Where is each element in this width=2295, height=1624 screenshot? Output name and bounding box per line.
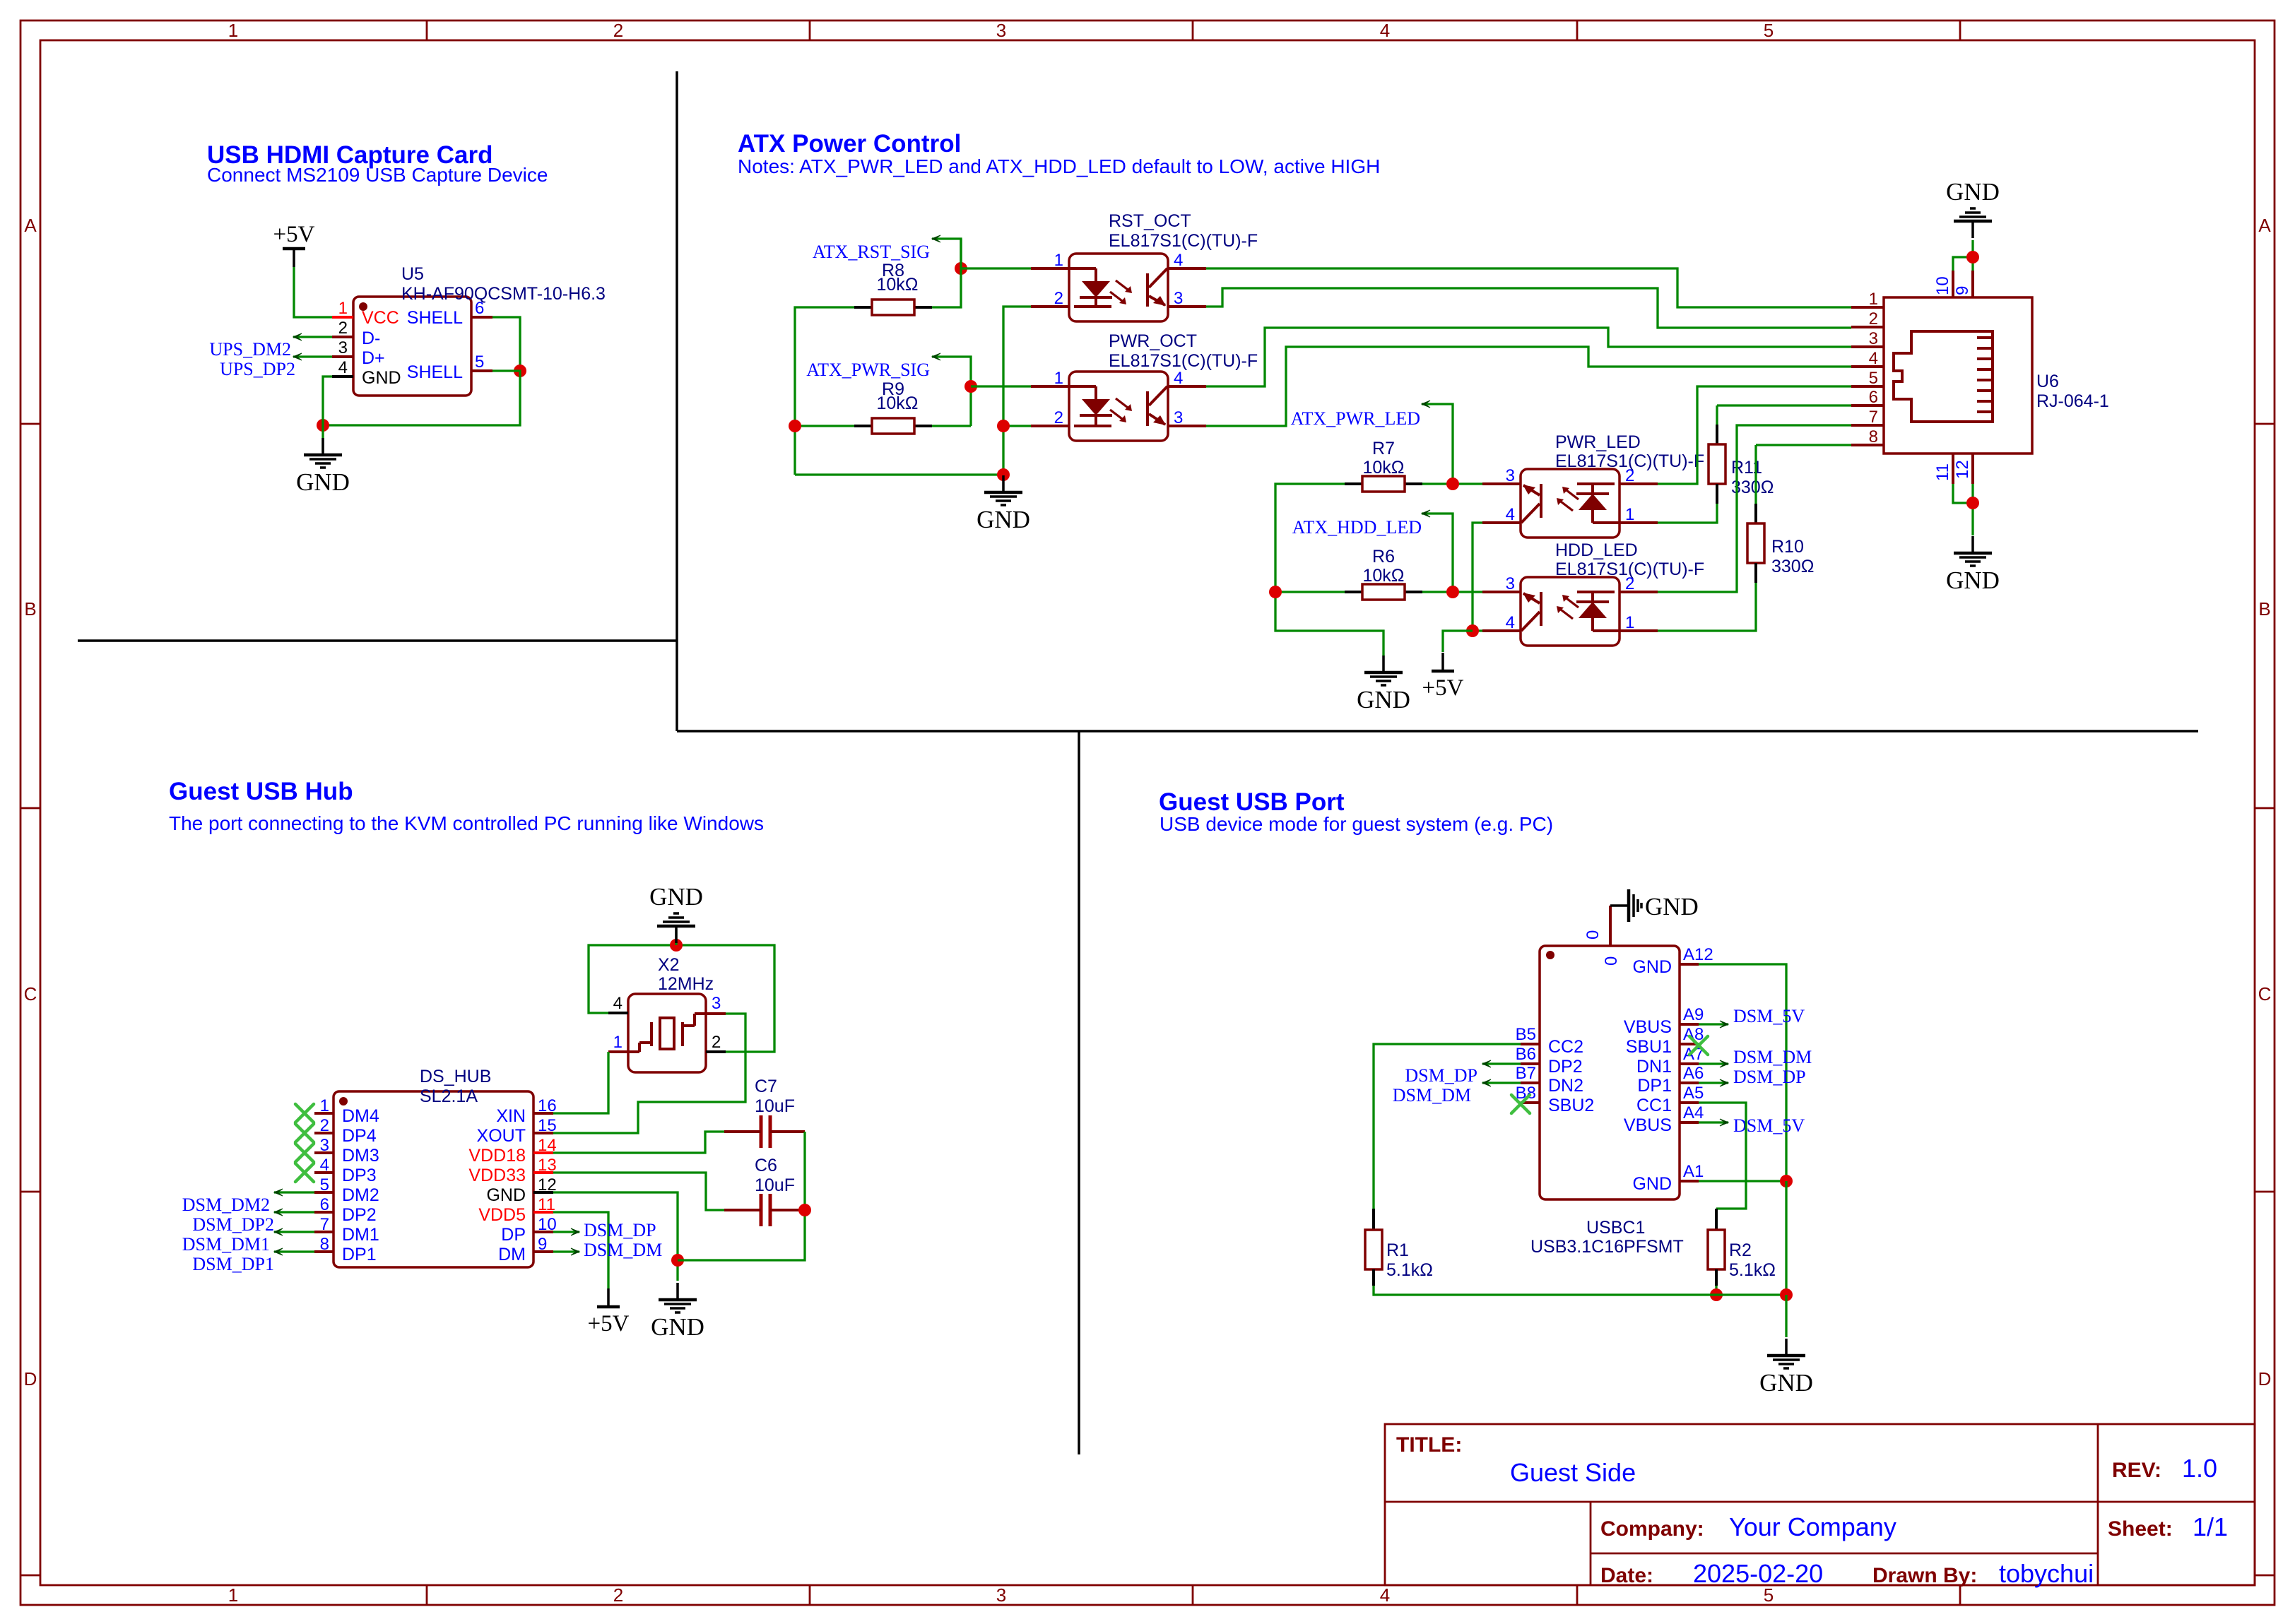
svg-text:ATX_PWR_SIG: ATX_PWR_SIG xyxy=(806,360,930,380)
PWR_OCT pin 3 xyxy=(1168,425,1206,427)
R1 lead top xyxy=(1372,1209,1375,1230)
svg-text:DP: DP xyxy=(501,1225,526,1245)
svg-text:The port connecting to the KVM: The port connecting to the KVM controlle… xyxy=(169,812,764,834)
PWR_OCT pin 2 xyxy=(1031,425,1069,427)
svg-text:DM: DM xyxy=(498,1245,526,1264)
U6 pin 10 xyxy=(1952,271,1954,297)
svg-text:CC1: CC1 xyxy=(1636,1096,1672,1115)
svg-text:GND: GND xyxy=(486,1185,526,1205)
svg-text:DN2: DN2 xyxy=(1548,1076,1583,1096)
X2 pin 1 xyxy=(608,1050,628,1053)
svg-text:EL817S1(C)(TU)-F: EL817S1(C)(TU)-F xyxy=(1109,231,1258,251)
wire U6 pin11 hook xyxy=(1953,484,1973,503)
svg-text:10kΩ: 10kΩ xyxy=(1363,458,1405,478)
svg-text:GND: GND xyxy=(362,368,401,388)
PWR_OCT pin 1 xyxy=(1031,385,1069,388)
svg-text:5: 5 xyxy=(475,352,484,372)
svg-text:+5V: +5V xyxy=(273,222,315,247)
junction R9 left rail xyxy=(789,420,801,432)
svg-text:12: 12 xyxy=(1953,460,1972,479)
svg-text:5: 5 xyxy=(1869,369,1878,388)
svg-text:DSM_DM1: DSM_DM1 xyxy=(182,1234,270,1255)
crystal X2 body xyxy=(628,994,706,1072)
wire XOUT to X2 pin3 xyxy=(553,1014,745,1133)
svg-text:REV:: REV: xyxy=(2112,1459,2161,1482)
RST_OCT pin 4 xyxy=(1168,267,1206,270)
section divider horizontal left xyxy=(78,639,677,642)
wire R8 left rail xyxy=(795,307,854,475)
component USBC1 body xyxy=(1540,946,1680,1199)
wire U5 pin2 to UPS_DM2 xyxy=(293,336,332,338)
svg-text:1: 1 xyxy=(1054,251,1063,270)
svg-text:GND: GND xyxy=(296,468,350,496)
wire XIN to X2 pin1 xyxy=(553,1052,608,1113)
svg-text:4: 4 xyxy=(1506,613,1515,632)
U6 pin 12 xyxy=(1971,454,1974,484)
wire gnd down xyxy=(1785,1181,1787,1295)
svg-text:9: 9 xyxy=(538,1235,547,1254)
junction gnd rail usb xyxy=(1780,1288,1793,1301)
section divider vertical 1 xyxy=(675,71,678,731)
junction PWR_OCT pin2 rail xyxy=(997,420,1010,432)
svg-text:VDD5: VDD5 xyxy=(478,1205,526,1225)
svg-text:5.1kΩ: 5.1kΩ xyxy=(1386,1260,1433,1280)
svg-text:VDD33: VDD33 xyxy=(468,1166,526,1185)
svg-text:DP2: DP2 xyxy=(342,1205,377,1225)
svg-text:DSM_DP: DSM_DP xyxy=(1733,1067,1806,1087)
svg-text:D: D xyxy=(24,1368,37,1389)
ground GND (USBC top, sideways) xyxy=(1610,904,1627,907)
wire PWR_LED pin4 to HDD_LED pin4 xyxy=(1473,523,1482,631)
svg-text:UPS_DP2: UPS_DP2 xyxy=(220,359,295,379)
svg-text:DM2: DM2 xyxy=(342,1185,379,1205)
wire U6 pin10 hook xyxy=(1953,257,1973,271)
wire RST_OCT pin2 to gnd rail xyxy=(1003,307,1031,475)
svg-text:Drawn By:: Drawn By: xyxy=(1872,1564,1977,1587)
optocoupler PWR_OCT xyxy=(1069,372,1168,441)
svg-text:A4: A4 xyxy=(1683,1103,1704,1122)
wire R10 to HDD_LED pin1 xyxy=(1658,583,1756,631)
PWR_LED pin 4 xyxy=(1482,521,1521,524)
svg-text:ATX_PWR_LED: ATX_PWR_LED xyxy=(1291,408,1420,429)
svg-text:GND: GND xyxy=(1946,567,2000,594)
svg-text:3: 3 xyxy=(1506,574,1515,593)
svg-text:A6: A6 xyxy=(1683,1064,1704,1083)
svg-text:RST_OCT: RST_OCT xyxy=(1109,211,1191,231)
svg-text:4: 4 xyxy=(338,358,348,377)
svg-text:1: 1 xyxy=(613,1033,623,1052)
ground GND (ATX rail) xyxy=(1002,475,1005,491)
svg-text:DSM_DP2: DSM_DP2 xyxy=(192,1214,274,1235)
wire U5 pin6 down xyxy=(492,317,520,371)
net flag wire ATX_PWR_SIG xyxy=(932,357,971,426)
svg-text:7: 7 xyxy=(1869,408,1878,427)
wire RST_OCT pin1 xyxy=(961,267,1031,269)
capacitor C6 xyxy=(760,1194,763,1226)
R10 lead bottom xyxy=(1754,563,1757,583)
component U5 body xyxy=(353,297,471,396)
svg-text:C: C xyxy=(2258,983,2272,1004)
svg-text:1: 1 xyxy=(1054,369,1063,388)
wire PWR_LED pin2 to U6 pin5 xyxy=(1658,386,1851,484)
svg-text:GND: GND xyxy=(1645,893,1699,920)
svg-text:ATX_RST_SIG: ATX_RST_SIG xyxy=(813,242,930,262)
svg-text:1.0: 1.0 xyxy=(2182,1454,2217,1483)
X2 pin 3 xyxy=(706,1012,726,1015)
resistor R6 xyxy=(1345,591,1362,593)
svg-text:2: 2 xyxy=(1869,309,1878,328)
svg-text:A9: A9 xyxy=(1683,1005,1704,1024)
svg-text:DSM_DP: DSM_DP xyxy=(584,1220,656,1240)
section divider vertical 2 xyxy=(1078,731,1080,1454)
svg-text:2: 2 xyxy=(712,1033,721,1052)
wire R9 left xyxy=(795,425,854,427)
svg-text:+5V: +5V xyxy=(588,1311,630,1336)
wire gnd rail bottom xyxy=(795,473,1003,475)
svg-text:3: 3 xyxy=(1174,408,1183,427)
no-connect X A8 xyxy=(1689,1036,1708,1055)
svg-text:3: 3 xyxy=(320,1136,329,1155)
ground GND (USB port) xyxy=(1785,1339,1788,1354)
wire VDD33 to C6 xyxy=(553,1173,724,1210)
junction ATX_PWR_SIG xyxy=(964,380,977,393)
resistor R7 xyxy=(1345,482,1362,485)
wire X2 gnd stem xyxy=(675,929,677,945)
component DS_HUB body xyxy=(334,1091,533,1267)
junction U5 gnd xyxy=(317,419,329,432)
resistor R10 xyxy=(1747,523,1764,563)
ground GND (U5) xyxy=(321,438,324,454)
svg-text:3: 3 xyxy=(996,1584,1006,1606)
wire R6 right xyxy=(1422,591,1482,593)
svg-text:USB device mode for guest syst: USB device mode for guest system (e.g. P… xyxy=(1160,813,1553,835)
optocoupler HDD_LED xyxy=(1521,577,1620,646)
svg-text:B6: B6 xyxy=(1516,1045,1536,1064)
U5 pin 5 SHELL xyxy=(471,369,492,372)
svg-text:10: 10 xyxy=(1933,276,1952,295)
PWR_OCT pin 4 xyxy=(1168,385,1206,388)
svg-text:TITLE:: TITLE: xyxy=(1396,1433,1462,1457)
wire R11 to PWR_LED pin1 xyxy=(1658,504,1717,523)
wire U5 pin4 to gnd xyxy=(323,377,332,452)
svg-text:A: A xyxy=(24,215,37,236)
svg-text:1: 1 xyxy=(1625,505,1634,524)
svg-text:EL817S1(C)(TU)-F: EL817S1(C)(TU)-F xyxy=(1109,351,1258,371)
svg-text:A5: A5 xyxy=(1683,1084,1704,1103)
USBC1 pins A-side xyxy=(1680,963,1699,966)
border ticks xyxy=(426,20,428,40)
svg-text:DM4: DM4 xyxy=(342,1106,379,1126)
svg-text:R2: R2 xyxy=(1729,1240,1752,1260)
svg-text:Connect MS2109 USB Capture Dev: Connect MS2109 USB Capture Device xyxy=(207,164,548,186)
no-connect X pins 1-4 xyxy=(295,1104,314,1122)
R1 lead bottom xyxy=(1372,1269,1375,1286)
svg-text:Guest USB Port: Guest USB Port xyxy=(1159,788,1345,816)
svg-text:R10: R10 xyxy=(1771,537,1804,557)
svg-text:A: A xyxy=(2258,215,2271,236)
svg-text:4: 4 xyxy=(1174,369,1183,388)
svg-text:330Ω: 330Ω xyxy=(1771,557,1814,576)
svg-text:HDD_LED: HDD_LED xyxy=(1555,540,1638,560)
svg-text:7: 7 xyxy=(320,1215,329,1234)
svg-text:DSM_5V: DSM_5V xyxy=(1733,1115,1805,1136)
svg-text:5.1kΩ: 5.1kΩ xyxy=(1729,1260,1776,1280)
wire DM2 pin5 xyxy=(274,1191,314,1193)
svg-text:Guest USB Hub: Guest USB Hub xyxy=(169,778,353,805)
svg-text:5: 5 xyxy=(320,1175,329,1195)
svg-text:DP1: DP1 xyxy=(342,1245,377,1264)
svg-text:Guest Side: Guest Side xyxy=(1510,1458,1636,1487)
wire DP pin10 xyxy=(553,1231,579,1233)
svg-text:8: 8 xyxy=(1869,427,1878,446)
svg-text:0: 0 xyxy=(1583,930,1603,940)
svg-text:4: 4 xyxy=(613,994,623,1013)
svg-text:tobychui: tobychui xyxy=(1999,1559,2094,1588)
junction gnd rail xyxy=(997,468,1010,481)
junction hub gnd xyxy=(671,1254,684,1267)
svg-text:Notes: ATX_PWR_LED and ATX_HDD: Notes: ATX_PWR_LED and ATX_HDD_LED defau… xyxy=(738,155,1380,177)
svg-text:DSM_DM: DSM_DM xyxy=(584,1240,662,1260)
wire A4 DSM_5V xyxy=(1699,1121,1728,1123)
junction U6 bottom gnd xyxy=(1966,497,1979,509)
svg-text:CC2: CC2 xyxy=(1548,1037,1583,1057)
svg-text:3: 3 xyxy=(338,338,348,357)
svg-text:DN1: DN1 xyxy=(1636,1057,1672,1077)
svg-text:DSM_DP1: DSM_DP1 xyxy=(192,1254,274,1274)
wire PWR4 to U6 pin3 xyxy=(1206,328,1851,386)
svg-text:2: 2 xyxy=(1054,289,1063,308)
X2 crystal glyph xyxy=(628,1050,639,1053)
wire PWR3 to U6 pin4 xyxy=(1206,347,1851,426)
U5 pin 6 SHELL xyxy=(471,316,492,319)
HDD_LED pin 2 xyxy=(1620,591,1658,593)
svg-text:3: 3 xyxy=(712,994,721,1013)
U6 pins 1-8 xyxy=(1851,306,1884,309)
svg-text:A1: A1 xyxy=(1683,1162,1704,1181)
svg-text:SBU2: SBU2 xyxy=(1548,1096,1594,1115)
RST_OCT pin 2 xyxy=(1031,305,1069,308)
wire A5 CC1 to R2 xyxy=(1699,1103,1746,1209)
connector U6 body xyxy=(1884,297,2032,454)
wire U6 pin6 to R11 xyxy=(1717,404,1851,406)
svg-text:ATX Power Control: ATX Power Control xyxy=(738,130,961,158)
svg-text:DP2: DP2 xyxy=(1548,1057,1583,1077)
U6 jack glyph xyxy=(1894,331,1993,422)
svg-text:XOUT: XOUT xyxy=(477,1126,526,1146)
wire U5 pin5 shell to gnd rail xyxy=(323,371,520,425)
svg-text:1: 1 xyxy=(228,20,238,41)
svg-text:2: 2 xyxy=(338,319,348,338)
U5 pin 4 GND xyxy=(332,375,353,378)
power +5V (LED rail) xyxy=(1441,653,1444,671)
svg-text:C7: C7 xyxy=(755,1077,777,1096)
X2 pin 2 xyxy=(706,1050,726,1053)
U6 pin 9 xyxy=(1971,271,1974,297)
U5 pin 3 D+ xyxy=(332,355,353,358)
wire R6 left xyxy=(1275,591,1345,593)
svg-text:SHELL: SHELL xyxy=(407,308,463,328)
svg-text:B: B xyxy=(24,598,36,620)
R2 lead bottom xyxy=(1715,1269,1718,1286)
svg-text:DP3: DP3 xyxy=(342,1166,377,1185)
ground GND (LED rail) xyxy=(1382,656,1385,671)
svg-text:GND: GND xyxy=(1946,178,2000,206)
svg-text:1: 1 xyxy=(1625,613,1634,632)
svg-text:B7: B7 xyxy=(1516,1064,1536,1083)
wire DM1 pin7 xyxy=(274,1231,314,1233)
wire R7 right xyxy=(1422,482,1482,485)
svg-text:2: 2 xyxy=(613,20,623,41)
wire PWR_OCT pin2 xyxy=(1003,425,1031,427)
svg-text:10uF: 10uF xyxy=(755,1096,795,1116)
R11 lead top xyxy=(1716,425,1718,444)
optocoupler PWR_LED xyxy=(1521,469,1620,538)
svg-text:2: 2 xyxy=(1625,574,1634,593)
svg-text:SL2.1A: SL2.1A xyxy=(420,1086,478,1106)
svg-text:DM1: DM1 xyxy=(342,1225,379,1245)
PWR_LED pin 2 xyxy=(1620,482,1658,485)
svg-text:VBUS: VBUS xyxy=(1624,1017,1672,1037)
wire R9 right xyxy=(932,425,971,427)
wire A6 DSM_DP xyxy=(1699,1081,1728,1084)
junction emitters xyxy=(1466,624,1479,637)
resistor R11 xyxy=(1709,444,1725,484)
junction U5 pin5-pin6 xyxy=(514,364,526,377)
svg-text:2025-02-20: 2025-02-20 xyxy=(1693,1559,1823,1588)
wire DM pin9 xyxy=(553,1250,579,1252)
svg-text:DM3: DM3 xyxy=(342,1146,379,1166)
svg-text:DP4: DP4 xyxy=(342,1126,377,1146)
svg-text:DSM_DM: DSM_DM xyxy=(1393,1085,1471,1106)
R2 lead top xyxy=(1715,1209,1718,1230)
HDD_LED pin 1 xyxy=(1620,629,1658,632)
R11 lead bottom xyxy=(1716,484,1718,504)
svg-text:10kΩ: 10kΩ xyxy=(877,275,919,295)
wire B7 DSM_DM xyxy=(1482,1081,1521,1084)
power +5V (hub) xyxy=(607,1288,610,1307)
svg-text:0: 0 xyxy=(1602,956,1621,966)
svg-text:D+: D+ xyxy=(362,348,385,368)
svg-text:Sheet:: Sheet: xyxy=(2108,1517,2173,1541)
svg-text:UPS_DM2: UPS_DM2 xyxy=(209,339,291,360)
svg-text:R6: R6 xyxy=(1372,547,1395,567)
svg-text:12MHz: 12MHz xyxy=(658,974,714,994)
svg-text:D-: D- xyxy=(362,328,380,348)
svg-text:2: 2 xyxy=(1625,466,1634,485)
svg-text:2: 2 xyxy=(613,1584,623,1606)
ground GND (X2) xyxy=(675,927,678,943)
DS_HUB pin1 dot xyxy=(339,1097,348,1106)
svg-text:B5: B5 xyxy=(1516,1025,1536,1044)
svg-text:11: 11 xyxy=(1933,463,1952,481)
svg-text:ATX_HDD_LED: ATX_HDD_LED xyxy=(1292,517,1422,538)
PWR_LED pin 3 xyxy=(1482,482,1521,485)
wire GND pin12 xyxy=(553,1192,678,1281)
wire X2 gnd loop xyxy=(589,945,774,1052)
svg-text:GND: GND xyxy=(977,506,1030,533)
svg-text:5: 5 xyxy=(1764,20,1774,41)
wire PWR_OCT pin1 xyxy=(971,385,1031,387)
svg-text:B: B xyxy=(2258,598,2270,620)
svg-text:PWR_LED: PWR_LED xyxy=(1555,432,1641,452)
wire DP2 pin6 xyxy=(274,1211,314,1213)
wire A7 DSM_DM xyxy=(1699,1062,1728,1065)
DS_HUB pins 1-8 left xyxy=(314,1112,334,1115)
svg-text:10uF: 10uF xyxy=(755,1175,795,1195)
wire DP1 pin8 xyxy=(274,1250,314,1252)
RST_OCT pin 1 xyxy=(1031,267,1069,270)
wire R2 to gnd rail xyxy=(1715,1286,1717,1295)
svg-text:8: 8 xyxy=(320,1235,329,1254)
resistor R8 xyxy=(854,306,872,309)
no-connect X B8 xyxy=(1511,1095,1530,1113)
svg-text:1: 1 xyxy=(338,299,348,318)
svg-text:4: 4 xyxy=(1869,349,1878,368)
wire A12 gnd xyxy=(1699,964,1786,1181)
svg-text:PWR_OCT: PWR_OCT xyxy=(1109,331,1197,351)
svg-text:VCC: VCC xyxy=(362,308,399,328)
svg-text:DSM_DM2: DSM_DM2 xyxy=(182,1195,270,1215)
svg-text:DP1: DP1 xyxy=(1637,1076,1672,1096)
title block frame xyxy=(1385,1424,2255,1585)
wire caps right rail xyxy=(678,1132,805,1260)
wire HDD_LED pin2 to U6 pin7 xyxy=(1658,425,1851,592)
wire R7 left xyxy=(1275,484,1384,656)
svg-text:6: 6 xyxy=(320,1195,329,1214)
svg-text:4: 4 xyxy=(1380,20,1390,41)
resistor R1 xyxy=(1365,1230,1382,1269)
junction A1 xyxy=(1780,1175,1793,1187)
junction U6 top gnd xyxy=(1966,251,1979,263)
svg-text:1: 1 xyxy=(228,1584,238,1606)
svg-text:SBU1: SBU1 xyxy=(1626,1037,1672,1057)
HDD_LED pin 3 xyxy=(1482,591,1521,593)
wire gnd stem usb xyxy=(1785,1295,1787,1337)
svg-text:KH-AF90QCSMT-10-H6.3: KH-AF90QCSMT-10-H6.3 xyxy=(401,284,606,304)
svg-text:GND: GND xyxy=(1632,1174,1672,1194)
USBC1 pin1 dot xyxy=(1546,951,1554,959)
svg-text:+5V: +5V xyxy=(1422,675,1464,701)
optocoupler RST_OCT xyxy=(1069,254,1168,321)
wire A9 DSM_5V xyxy=(1699,1023,1728,1025)
svg-text:10kΩ: 10kΩ xyxy=(877,393,919,413)
capacitor C7 xyxy=(760,1115,763,1148)
U5 pin1 dot xyxy=(359,302,367,311)
R10 lead top xyxy=(1754,504,1757,523)
svg-text:1: 1 xyxy=(1869,290,1878,309)
ground GND (hub) xyxy=(676,1283,679,1298)
svg-text:Your Company: Your Company xyxy=(1729,1512,1896,1541)
junction ATX_RST_SIG xyxy=(955,262,967,275)
net flag wire ATX_RST_SIG xyxy=(932,239,961,268)
svg-text:VDD18: VDD18 xyxy=(468,1146,526,1166)
svg-text:GND: GND xyxy=(1357,686,1410,713)
junction R7 right xyxy=(1446,478,1459,490)
wire RST4 to U6 pin1 xyxy=(1206,268,1851,307)
junction X2 gnd xyxy=(670,939,683,952)
svg-text:3: 3 xyxy=(996,20,1006,41)
svg-text:3: 3 xyxy=(1869,329,1878,348)
svg-text:X2: X2 xyxy=(658,955,680,975)
wire U6 pin8 to R10 xyxy=(1756,444,1851,446)
junction R2 bottom xyxy=(1710,1288,1723,1301)
net flag wire ATX_PWR_LED xyxy=(1422,404,1453,484)
svg-text:4: 4 xyxy=(1506,505,1515,524)
junction C6 right xyxy=(798,1204,811,1216)
wire U5 pin3 to UPS_DP2 xyxy=(293,355,332,357)
PWR_LED pin 1 xyxy=(1620,521,1658,524)
svg-text:C: C xyxy=(24,983,37,1004)
